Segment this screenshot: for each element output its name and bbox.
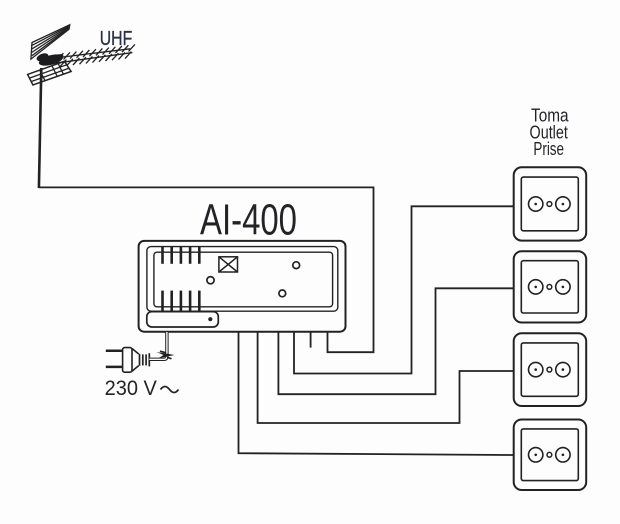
plug prong lower <box>106 366 123 369</box>
amplifier heatsink fins top <box>163 247 200 264</box>
amplifier inner panel outer outline <box>147 247 338 312</box>
wire output 2 to outlet TO2 <box>278 288 513 394</box>
antenna reflector panel <box>31 25 70 59</box>
mains arrow tail stroke <box>160 351 172 359</box>
amplifier U1 AI-400 <box>139 241 346 332</box>
amplifier case <box>139 241 346 332</box>
amplifier inner panel inner outline <box>154 252 333 307</box>
svg-text:UHF: UHF <box>100 28 133 50</box>
amplifier test point TP3 <box>279 290 286 297</box>
label tilde <box>161 387 179 393</box>
amplifier nameplate <box>147 312 219 327</box>
svg-text:AI-400: AI-400 <box>200 197 297 245</box>
antenna feed blob <box>35 52 64 68</box>
outlet TO1 <box>514 167 587 240</box>
svg-text:Prise: Prise <box>533 139 564 159</box>
amplifier nameplate dot <box>208 317 212 321</box>
mains arrowhead <box>157 352 175 358</box>
outlet TO2 <box>514 251 587 322</box>
plug strain relief ribs <box>140 353 150 366</box>
power plug P1 <box>106 332 167 372</box>
antenna ANT1 (UHF yagi) <box>28 25 135 188</box>
amplifier test point TP1 <box>207 277 214 284</box>
outlet TO3 <box>514 333 587 406</box>
antenna mesh panel <box>28 61 72 85</box>
plug cord <box>149 332 167 359</box>
antenna boom lower line <box>44 52 132 67</box>
svg-text:230 V: 230 V <box>105 377 157 400</box>
wire antenna feed to amplifier input <box>39 187 374 352</box>
antenna mast <box>39 68 41 188</box>
plug body <box>123 348 132 373</box>
outlet TO4 <box>514 420 587 491</box>
amplifier heatsink fins bottom <box>163 291 200 312</box>
amplifier mixer (crossed box) <box>219 257 238 272</box>
wire output 4 to outlet TO4 <box>239 332 514 455</box>
plug prong upper <box>106 350 123 353</box>
label Toma Outlet Prise <box>530 105 570 159</box>
wire output stub <box>310 332 312 348</box>
plug cone <box>132 349 139 372</box>
amplifier test point TP2 <box>293 262 300 269</box>
antenna boom upper line <box>51 44 135 60</box>
wire output 3 to outlet TO3 <box>258 332 514 423</box>
wire output 1 to outlet TO1 <box>294 206 514 373</box>
